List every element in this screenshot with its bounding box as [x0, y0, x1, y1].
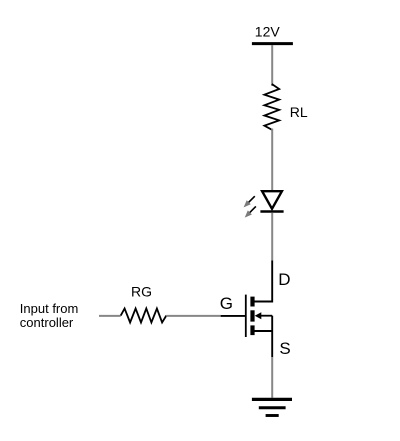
- transistor Q1 body arrow head: [255, 312, 262, 319]
- transistor Q1 channel top segment: [250, 297, 254, 307]
- resistor RL: [264, 84, 279, 130]
- wire 12V rail to RL: [271, 45, 273, 86]
- LED D1 triangle (anode): [262, 191, 282, 209]
- transistor Q1 source vertical pin: [271, 316, 273, 357]
- wire source to ground: [271, 357, 273, 398]
- svg-text:12V: 12V: [255, 24, 281, 40]
- svg-text:Input from: Input from: [20, 301, 79, 316]
- LED D1 cathode bar: [260, 210, 283, 212]
- wire RL to LED: [271, 129, 273, 191]
- power rail 12V bar: [252, 42, 293, 45]
- ground bar 1: [252, 398, 292, 401]
- transistor Q1 body arrow shaft: [261, 315, 273, 317]
- transistor Q1 drain pin: [255, 261, 273, 302]
- svg-text:controller: controller: [20, 315, 74, 330]
- transistor Q1 channel bottom segment: [250, 325, 254, 335]
- LED emission arrow 1: [244, 196, 255, 207]
- svg-text:RG: RG: [131, 283, 152, 299]
- wire LED to drain: [271, 213, 273, 261]
- wire RG to gate: [166, 315, 220, 317]
- transistor Q1 channel middle segment: [250, 310, 254, 321]
- LED emission arrow 2: [245, 206, 256, 217]
- resistor RG: [121, 309, 167, 323]
- transistor Q1 gate lead: [221, 315, 246, 317]
- ground bar 3: [266, 414, 279, 417]
- svg-text:G: G: [220, 294, 233, 313]
- transistor Q1 source horizontal: [255, 330, 273, 332]
- svg-text:S: S: [279, 339, 290, 358]
- ground bar 2: [259, 406, 286, 409]
- svg-text:D: D: [278, 270, 290, 289]
- wire input to RG: [99, 315, 121, 317]
- transistor Q1 gate bar: [245, 295, 247, 337]
- svg-text:RL: RL: [290, 104, 308, 120]
